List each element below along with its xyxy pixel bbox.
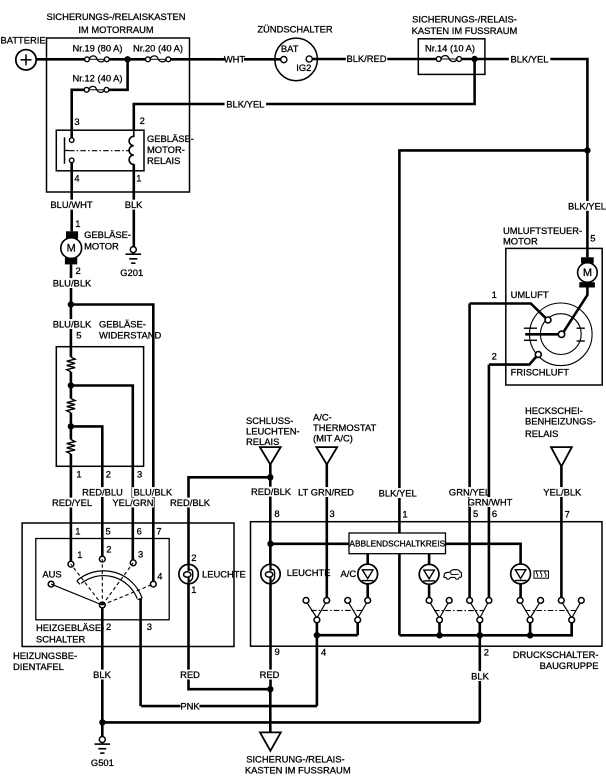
relay switch contacts pins 3-4	[65, 137, 74, 163]
svg-text:LEUCHTE: LEUCHTE	[202, 569, 246, 580]
wire fuse12 to relay pin 3	[72, 90, 85, 138]
svg-text:8: 8	[274, 508, 279, 519]
wire GRN/YEL umluft to switch3	[449, 304, 491, 599]
svg-text:IG2: IG2	[296, 62, 311, 73]
svg-text:FRISCHLUFT: FRISCHLUFT	[511, 366, 570, 377]
label RED/BLU	[82, 487, 124, 498]
wire fuse19 to fuse20 with junction	[109, 58, 146, 61]
recirc switch right pole	[467, 598, 492, 623]
switch contact 1	[68, 549, 83, 567]
label pin 7 pressure-switch	[565, 509, 570, 520]
svg-text:3: 3	[330, 508, 335, 519]
svg-text:RED/YEL: RED/YEL	[52, 497, 92, 508]
node resistor tap 1	[68, 382, 74, 388]
node bus defog left	[527, 632, 533, 638]
svg-text:1: 1	[492, 289, 497, 300]
svg-text:7: 7	[156, 525, 161, 536]
node junction at fuse14 output	[471, 56, 477, 62]
label relay name	[147, 133, 194, 166]
svg-text:BLK/YEL: BLK/YEL	[568, 200, 606, 211]
svg-text:MOTOR: MOTOR	[503, 236, 538, 247]
actuator inner circle	[540, 314, 581, 355]
svg-text:MOTOR: MOTOR	[84, 240, 119, 251]
svg-text:BLK/YEL: BLK/YEL	[226, 99, 264, 110]
svg-text:RELAIS: RELAIS	[147, 155, 180, 166]
svg-text:BLU/BLK: BLU/BLK	[53, 319, 92, 330]
fuse Nr.12 (40 A)	[72, 73, 122, 93]
svg-text:2: 2	[140, 115, 145, 126]
wire YEL/BLK defogger relay to switch 4	[542, 467, 584, 599]
wire between resistor 2 and 3	[70, 413, 73, 440]
label resistor pins 1 2 3	[76, 468, 142, 479]
label pin 5 resistor	[76, 330, 81, 341]
wire lamp2 stub top	[269, 544, 272, 565]
svg-text:HEIZGEBLÄSE-: HEIZGEBLÄSE-	[36, 622, 104, 633]
lamp LEUCHTE panel	[179, 552, 246, 595]
svg-text:GEBLÄSE-: GEBLÄSE-	[147, 133, 194, 144]
label pin 4 relay	[74, 172, 79, 183]
wire BLK/YEL junction to pin 1 down	[377, 150, 587, 635]
ignition switch ZUENDSCHALTER	[257, 23, 333, 80]
relay mechanical dash-dot link	[69, 150, 129, 152]
wiper arm	[525, 333, 561, 336]
umluft motor M	[578, 257, 598, 287]
svg-text:4: 4	[157, 571, 162, 582]
label pin 5 pressure-switch	[473, 508, 478, 519]
label pin 1 blower motor	[75, 218, 80, 229]
blower switch box	[36, 539, 169, 620]
label pin 3 bottom	[147, 621, 152, 632]
svg-text:1: 1	[75, 218, 80, 229]
svg-text:YEL/BLK: YEL/BLK	[543, 487, 582, 498]
svg-text:LEUCHTE: LEUCHTE	[287, 567, 331, 578]
svg-text:SCHLUSS-: SCHLUSS-	[246, 415, 293, 426]
svg-text:BLK: BLK	[471, 671, 489, 682]
switch contact 3	[130, 548, 143, 565]
node junction blk/yel right	[584, 147, 590, 153]
actuator left plates	[524, 328, 537, 340]
wire BLK/YEL down to umluft motor	[566, 150, 606, 257]
svg-text:DIENTAFEL: DIENTAFEL	[13, 661, 64, 672]
wire BLK bus to pressure switch pin 2	[102, 721, 479, 724]
node junction red/blk	[267, 474, 273, 480]
svg-text:SCHALTER: SCHALTER	[36, 634, 86, 645]
svg-text:UMLUFT: UMLUFT	[511, 289, 549, 300]
fuse/relay box footwell (SICHERUNGS-/RELAIS-KASTEN IM FUSSRAUM)	[418, 39, 485, 75]
svg-text:4: 4	[74, 172, 79, 183]
node A/C switch bus	[314, 632, 320, 638]
svg-text:3: 3	[147, 621, 152, 632]
recirc switch mechanical link	[434, 610, 484, 612]
svg-text:5: 5	[473, 508, 478, 519]
switch contact AUS	[42, 569, 61, 587]
wire BLK pin 2 down to ground bus	[471, 635, 490, 722]
svg-text:BENHEIZUNGS-: BENHEIZUNGS-	[525, 416, 596, 427]
line to abblendschaltkreis and indicator 4	[271, 544, 521, 564]
connector triangle SCHLUSS-LEUCHTEN-RELAIS	[260, 447, 281, 464]
label pin 1 pressure-switch	[402, 509, 407, 520]
label UMLUFT and pin 1	[492, 289, 549, 300]
svg-text:BLK/YEL: BLK/YEL	[510, 53, 548, 64]
svg-text:BAUGRUPPE: BAUGRUPPE	[540, 660, 599, 671]
svg-text:BLU/BLK: BLU/BLK	[53, 278, 92, 289]
wire BLU/BLK motor down to junction	[51, 264, 93, 304]
svg-text:LEUCHTEN-: LEUCHTEN-	[246, 425, 300, 436]
wire LT GRN/RED thermostat to A/C switch	[297, 465, 355, 598]
label DRUCKSCHALTER-BAUGRUPPE	[513, 649, 599, 671]
actuator outer circle	[530, 303, 593, 366]
svg-text:BLK: BLK	[93, 669, 111, 680]
fuse Nr.14 (10 A)	[425, 43, 475, 62]
box ABBLENDSCHALTKREIS	[349, 533, 446, 554]
indicator lamp A/C	[341, 554, 378, 598]
pivot contact	[558, 331, 564, 337]
label panel name	[13, 650, 77, 672]
svg-text:GEBLÄSE-: GEBLÄSE-	[99, 319, 146, 330]
label pin 1 relay	[136, 172, 141, 183]
label SCHLUSS-LEUCHTEN-RELAIS	[246, 415, 300, 447]
svg-text:SICHERUNG-/RELAIS-: SICHERUNG-/RELAIS-	[246, 754, 344, 765]
svg-text:YEL/GRN: YEL/GRN	[112, 497, 153, 508]
svg-text:1: 1	[76, 468, 81, 479]
resistor element 2	[67, 399, 75, 413]
svg-text:WIDERSTAND: WIDERSTAND	[99, 330, 162, 341]
blower motor GEBLAESE-MOTOR	[61, 231, 82, 264]
svg-text:LT GRN/RED: LT GRN/RED	[298, 487, 354, 498]
svg-text:WHT: WHT	[224, 54, 246, 65]
indicator lamp recirculation	[419, 554, 439, 598]
wire tap2 to pin 2	[71, 426, 102, 556]
label HECKSCHEIBENHEIZUNGS-RELAIS	[525, 405, 596, 439]
wire BLK/RED ignition IG2 to fuse box footwell	[312, 53, 436, 64]
svg-text:7: 7	[565, 509, 570, 520]
svg-text:Nr.19 (80 A): Nr.19 (80 A)	[72, 42, 122, 53]
svg-text:2: 2	[106, 468, 111, 479]
svg-text:KASTEN IM FUSSRAUM: KASTEN IM FUSSRAUM	[412, 25, 518, 36]
wire BLK switch common to ground	[93, 608, 112, 723]
svg-text:DRUCKSCHALTER-: DRUCKSCHALTER-	[513, 649, 599, 660]
wire junction to fuse Nr.12	[109, 59, 128, 90]
indicator lamp defogger	[511, 564, 531, 598]
pressure switch group box	[251, 522, 603, 647]
wire GRN/WHT frischluft to switch3	[468, 365, 513, 598]
wire 3 from selector arrow down	[139, 599, 142, 706]
label fuse box footwell title	[412, 14, 518, 37]
svg-text:3: 3	[138, 548, 143, 559]
icon car	[444, 570, 462, 580]
svg-text:1: 1	[402, 509, 407, 520]
switch contact 2	[99, 544, 111, 562]
label pin 3 relay	[74, 116, 79, 127]
wire BLK/YEL fuse14 down to relay coil pin 2	[134, 59, 475, 131]
label footwell connector	[245, 754, 351, 776]
svg-text:ZÜNDSCHALTER: ZÜNDSCHALTER	[257, 23, 333, 34]
svg-text:2: 2	[191, 552, 196, 563]
battery BATTERIE	[1, 35, 46, 71]
solid line to AUS	[51, 584, 102, 605]
label A/C-THERMOSTAT (MIT A/C)	[313, 411, 376, 443]
svg-text:GEBLÄSE-: GEBLÄSE-	[84, 229, 131, 240]
wire motor to wiper pivot	[562, 288, 587, 335]
A/C switch mechanical link	[311, 609, 362, 611]
wire RED/YEL resistor pin1 down to switch contact 1	[51, 454, 93, 562]
svg-text:Nr.20 (40 A): Nr.20 (40 A)	[133, 43, 183, 54]
contact FRISCHLUFT	[535, 352, 541, 358]
svg-text:G501: G501	[91, 757, 114, 768]
svg-text:Nr.14 (10 A): Nr.14 (10 A)	[425, 43, 475, 54]
wire RED lamp1 down	[180, 584, 270, 689]
wire BLU/WHT relay pin4 to blower motor	[50, 163, 92, 232]
svg-text:BLK: BLK	[125, 199, 143, 210]
svg-text:RED/BLK: RED/BLK	[251, 486, 292, 497]
resistor box GEBLAESE-WIDERSTAND	[56, 347, 143, 467]
label pin 8	[274, 508, 279, 519]
wire WHT fuse20 to ignition BAT	[171, 54, 281, 65]
ground G201	[120, 247, 143, 279]
svg-text:3: 3	[74, 116, 79, 127]
svg-text:GRN/WHT: GRN/WHT	[468, 497, 513, 508]
label pin 2 blower motor	[76, 265, 81, 276]
wire lamp2 to pin 9	[260, 584, 280, 690]
svg-text:A/C: A/C	[341, 568, 357, 579]
svg-text:2: 2	[106, 544, 111, 555]
resistor element 3	[67, 440, 75, 455]
selector arc inner	[81, 576, 137, 599]
connector triangle to footwell fuse box	[260, 732, 281, 750]
label pin 3 pressure-switch	[330, 508, 335, 519]
A/C switch right pole	[345, 598, 371, 623]
svg-text:9: 9	[275, 646, 280, 657]
label fuse box engine title	[46, 11, 185, 35]
defog switch mechanical link	[525, 610, 576, 612]
wire junction into resistor	[51, 305, 93, 358]
svg-text:MOTOR-: MOTOR-	[147, 144, 185, 155]
node junction RED	[267, 686, 273, 692]
wire lamp2 top with junction	[267, 541, 273, 547]
wire PNK switch pin3 to pressure pin4	[141, 701, 317, 712]
wire battery to fuse box	[36, 58, 84, 61]
svg-text:A/C-: A/C-	[313, 411, 332, 422]
label heater switch name	[36, 622, 104, 645]
svg-text:G201: G201	[120, 267, 143, 278]
wire pin 4 down	[317, 635, 326, 706]
svg-text:BATTERIE: BATTERIE	[1, 35, 46, 46]
svg-text:RED: RED	[260, 669, 280, 680]
svg-text:2: 2	[484, 647, 489, 658]
node bus recirc left	[436, 632, 442, 638]
svg-text:2: 2	[492, 351, 497, 362]
wire BLK relay pin1 to ground G201	[124, 165, 143, 247]
label FRISCHLUFT and pin 2	[492, 351, 570, 378]
svg-text:6: 6	[492, 508, 497, 519]
svg-text:RELAIS: RELAIS	[525, 428, 558, 439]
recirc switch stubs	[440, 623, 480, 636]
wire RED down to connector triangle	[269, 689, 272, 732]
svg-text:RELAIS: RELAIS	[246, 436, 279, 447]
svg-text:HECKSCHEI-: HECKSCHEI-	[525, 405, 583, 416]
svg-text:2: 2	[106, 621, 111, 632]
svg-text:PNK: PNK	[180, 701, 200, 712]
selector band end cap	[77, 581, 142, 600]
node junction above resistor	[68, 301, 74, 307]
label UMLUFTSTEUER-MOTOR	[503, 225, 582, 247]
label heater panel pins 1 5 6 7	[75, 525, 161, 536]
connector triangle A/C thermostat	[316, 447, 337, 464]
svg-text:1: 1	[191, 584, 196, 595]
selector arc outer	[77, 571, 142, 598]
svg-text:THERMOSTAT: THERMOSTAT	[313, 422, 376, 433]
defog switch stubs	[530, 623, 572, 636]
label resistor name	[99, 319, 162, 341]
fuse Nr.19 (80 A)	[72, 42, 122, 61]
svg-text:SICHERUNGS-/RELAIS-: SICHERUNGS-/RELAIS-	[412, 14, 517, 25]
defog switch right pole	[558, 598, 584, 623]
label pin 2 relay	[140, 115, 145, 126]
switch common contact	[99, 602, 105, 608]
control panel box HEIZUNGSBEDIENTAFEL	[22, 523, 234, 647]
svg-text:BLU/WHT: BLU/WHT	[50, 199, 92, 210]
svg-text:1: 1	[75, 525, 80, 536]
actuator right plates	[577, 328, 585, 341]
wire 2 FRISCHLUFT	[489, 357, 537, 365]
svg-text:IM MOTORRAUM: IM MOTORRAUM	[78, 24, 154, 35]
wire between resistor 1 and 2	[70, 372, 73, 399]
wire RED/BLK branch to lamp1	[169, 477, 270, 564]
wire tap1 to pin 3	[71, 386, 133, 561]
svg-text:3: 3	[137, 468, 142, 479]
recirculation motor box	[506, 248, 602, 385]
relay box GEBLAESE-MOTOR-RELAIS	[56, 130, 144, 171]
switch contact 4	[150, 571, 162, 587]
svg-text:M: M	[67, 243, 76, 255]
wire from schluss relais down to pin 8	[250, 465, 292, 565]
svg-text:RED/BLK: RED/BLK	[170, 497, 211, 508]
svg-text:BLK/RED: BLK/RED	[346, 53, 386, 64]
lamp LEUCHTE pressure group	[261, 564, 331, 583]
node resistor tap 2	[68, 423, 74, 429]
fuse Nr.20 (40 A)	[133, 43, 183, 62]
svg-text:2: 2	[76, 265, 81, 276]
recirc switch left pole	[426, 598, 452, 623]
node bus recirc right	[477, 632, 483, 638]
fuse/relay box engine compartment (SICHERUNGS-/RELAISKASTEN IM MOTORRAUM)	[47, 38, 190, 192]
dashed wiper positions	[71, 559, 153, 605]
label BLU/BLK wire to pin7	[132, 487, 174, 498]
svg-text:HEIZUNGSBE-: HEIZUNGSBE-	[13, 650, 77, 661]
wire BLK/YEL fuse14 right going down right side	[461, 53, 587, 148]
svg-text:KASTEN IM FUSSRAUM: KASTEN IM FUSSRAUM	[245, 765, 351, 776]
svg-text:5: 5	[590, 233, 595, 244]
label YEL/GRN	[112, 497, 154, 508]
svg-text:6: 6	[137, 525, 142, 536]
defog switch left pole	[517, 598, 543, 623]
svg-text:1: 1	[77, 549, 82, 560]
ground G501	[91, 722, 114, 768]
label pin 2 bottom	[106, 621, 111, 632]
svg-text:4: 4	[321, 646, 326, 657]
node junction ground bus	[99, 719, 105, 725]
resistor element 1	[67, 357, 75, 372]
label pin 6 pressure-switch	[492, 508, 497, 519]
svg-text:M: M	[583, 267, 592, 279]
svg-text:BAT: BAT	[281, 43, 299, 54]
node junction fuses	[124, 56, 130, 62]
contact UMLUFT	[545, 317, 551, 323]
icon defogger	[534, 571, 549, 578]
label blower motor name	[84, 229, 131, 251]
connector triangle rear defogger relay	[551, 447, 572, 466]
svg-text:1: 1	[136, 172, 141, 183]
bottom bus pressure switches	[399, 623, 571, 636]
A/C switch bottom bus	[317, 623, 358, 636]
svg-text:AUS: AUS	[42, 569, 61, 580]
svg-text:BLK/YEL: BLK/YEL	[379, 488, 417, 499]
relay coil	[129, 131, 134, 171]
svg-text:ABBLENDSCHALTKREIS: ABBLENDSCHALTKREIS	[349, 539, 445, 549]
svg-text:SICHERUNGS-/RELAISKASTEN: SICHERUNGS-/RELAISKASTEN	[46, 11, 185, 22]
A/C switch left pole	[303, 598, 330, 623]
svg-text:5: 5	[76, 330, 81, 341]
svg-text:5: 5	[106, 525, 111, 536]
svg-text:RED/BLU: RED/BLU	[82, 487, 123, 498]
svg-text:RED: RED	[180, 669, 200, 680]
label pin 5 umluft motor	[590, 233, 595, 244]
svg-text:UMLUFTSTEUER-: UMLUFTSTEUER-	[503, 225, 582, 236]
svg-text:Nr.12 (40 A): Nr.12 (40 A)	[72, 73, 122, 84]
wire BLU/BLK bypass to switch contact 4	[71, 305, 153, 582]
svg-text:(MIT A/C): (MIT A/C)	[313, 432, 353, 443]
svg-text:BLU/BLK: BLU/BLK	[134, 487, 173, 498]
wire 1 UMLUFT	[470, 304, 546, 319]
